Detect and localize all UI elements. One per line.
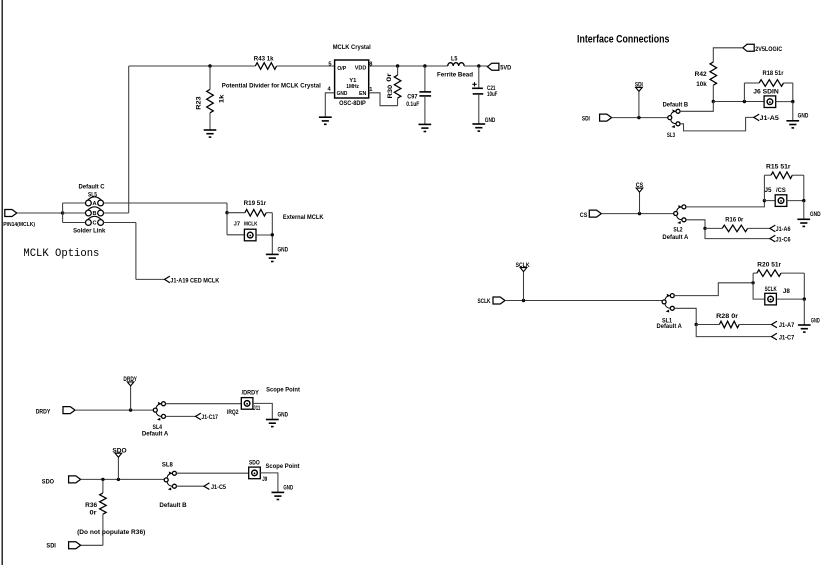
wire SL5 left bracket [63,203,86,223]
svg-text:VDD: VDD [355,66,367,72]
junction at R19 left [225,211,228,214]
junction right of J7 [271,233,274,236]
wire SL5 row A to R19 [104,203,228,213]
ground under C21 [472,117,495,131]
svg-text:J1-C5: J1-C5 [211,484,226,491]
svg-text:Potential Divider for MCLK Cry: Potential Divider for MCLK Crystal [222,83,321,90]
wire R42 junction to J6 [713,101,764,103]
inductor L5 Ferrite Bead [437,55,473,78]
wire oscillator pin 1 to R30 bottom [369,93,398,106]
svg-text:Default B: Default B [159,502,187,509]
oscillator U Y1 OSC-8DIP box [335,60,369,98]
svg-text:Default A: Default A [657,323,683,330]
net label SDI flag [635,82,643,118]
svg-text:Ferrite Bead: Ferrite Bead [437,72,473,79]
svg-text:SL5: SL5 [88,192,97,199]
wire junction down to J8 [753,283,765,299]
junction at C97 top [423,64,426,67]
ground under R23 [204,130,217,137]
svg-text:C97: C97 [407,93,418,100]
svg-text:C: C [92,221,96,227]
off-page arrow J1-A6 [770,225,791,233]
scope point J9 SDO [249,460,268,484]
off-page arrow J1-C7 [772,333,795,341]
svg-text:R42: R42 [695,71,708,78]
scope point J6 SDIN [753,89,779,108]
junction at SCLK net label stub [522,299,525,302]
svg-text:DRDY: DRDY [123,376,137,383]
svg-text:SCLK: SCLK [478,298,491,305]
svg-text:0.1uF: 0.1uF [406,101,419,108]
junction at R18 left [743,100,746,103]
wire R43 to oscillator pin 5 [277,65,335,67]
wire SCLK to SL1 [505,300,662,302]
svg-text:J8: J8 [783,288,791,295]
junction right of J8 [803,297,806,300]
svg-text:OSC-8DIP: OSC-8DIP [339,100,366,107]
net label DRDY flag [123,376,137,410]
scope point J7 MCLK [234,221,259,240]
solder link SL3 [668,109,680,128]
wire 2V5LOGIC to R42 [713,48,743,62]
svg-text:Solder Link: Solder Link [73,227,106,234]
svg-text:SDO: SDO [42,478,54,485]
svg-text:GND: GND [278,246,289,253]
svg-text:R16 0r: R16 0r [725,217,744,224]
svg-text:GND: GND [283,485,293,492]
svg-text:10uF: 10uF [487,91,498,98]
svg-text:Interface Connections: Interface Connections [577,34,669,46]
svg-text:R30: R30 [387,84,394,98]
wire SL2 top contact to J5 node [686,201,765,207]
ground at J9 [272,485,294,500]
solder link SL4 [153,402,165,421]
resistor R16 0r [705,217,770,232]
wire J8 to ground node [777,298,805,300]
svg-text:SDO: SDO [112,447,126,454]
resistor R18 51r [744,70,792,102]
svg-text:8: 8 [369,62,372,68]
off-page arrow J1-A5 [754,114,780,122]
svg-text:J11: J11 [253,405,260,412]
solder link SL5 row A [86,197,104,207]
svg-text:R20 51r: R20 51r [757,262,781,269]
solder link SL5 row C [86,216,104,226]
svg-text:1k: 1k [218,94,225,103]
svg-text:SDO: SDO [249,460,260,467]
svg-text:R18 51r: R18 51r [763,70,784,77]
svg-text:J1-A7: J1-A7 [779,322,795,329]
junction at R42 bottom [712,100,715,103]
svg-text:GND: GND [798,113,809,120]
svg-text:SDI: SDI [635,82,643,89]
svg-text:J9: J9 [262,476,267,483]
net label SDO flag [112,447,126,479]
svg-text:2V5LOGIC: 2V5LOGIC [755,46,782,53]
resistor R36 0r do-not-populate [81,479,107,545]
svg-text:J1-C17: J1-C17 [201,414,218,421]
input terminal DRDY [36,407,75,416]
wire SDI to SL3 [612,117,668,119]
wire CS to SL2 [601,213,673,215]
svg-text:SDI: SDI [582,116,590,123]
svg-text:GND: GND [278,412,289,419]
wire MCLK net vertical from crystal row down to SL5 row B [128,66,130,213]
off-page arrow J1-C17 [196,413,219,421]
input terminal SCLK [478,297,506,305]
solder link SL8 [164,471,176,490]
svg-text:Default A: Default A [142,430,169,437]
svg-text:R36: R36 [85,502,98,509]
svg-text:IRQ2: IRQ2 [227,409,239,416]
junction at R30 top [396,64,399,67]
wire SL1 bottom contact to R28 [674,308,696,324]
wire SL5 row C to J1-A19 [104,223,165,280]
junction at CS net label stub [638,212,641,215]
off-page arrow J1-A7 [772,321,795,329]
svg-text:SL8: SL8 [162,462,173,469]
scope point J5 /CS [765,187,787,207]
svg-text:MCLK Options: MCLK Options [23,248,99,260]
svg-text:Scope Point: Scope Point [266,463,301,470]
svg-text:CS: CS [580,212,588,219]
svg-text:SL3: SL3 [667,132,676,139]
wire SL1 top contact to R20 junction [674,283,753,296]
solder link SL2 [674,205,686,224]
wire to J1-C7 [696,325,771,337]
svg-text:J1-A6: J1-A6 [776,226,791,233]
svg-text:SCLK: SCLK [765,286,777,293]
wire oscillator pin 4 to ground [325,93,334,117]
svg-text:0r: 0r [90,510,98,517]
svg-text:J1-A19 CED MCLK: J1-A19 CED MCLK [170,278,219,285]
wire SL5 row B to crystal net [104,212,129,214]
wire PIN14 to SL5 [18,212,63,214]
ground at J8 [798,299,820,332]
svg-text:GND: GND [811,317,820,324]
svg-text:SCLK: SCLK [516,262,530,269]
junction at SL5 common [61,211,64,214]
wire J11 to ground [253,403,272,419]
wire L5 to 5VD terminal [464,65,487,67]
svg-text:O/P: O/P [337,66,346,72]
wire junction to J5 [764,200,775,202]
resistor R19 51r [227,200,272,216]
junction at R36 top [101,478,104,481]
svg-text:5: 5 [328,61,331,67]
svg-text:L5: L5 [451,55,458,62]
svg-text:1: 1 [369,87,372,93]
off-page arrow J1-C6 [770,235,791,243]
svg-text:CS: CS [636,182,644,189]
wire SDO to SL8 [81,478,165,480]
svg-text:Default A: Default A [662,234,688,241]
svg-text:Default C: Default C [79,184,106,191]
resistor R23 1k [196,66,226,130]
wire top horizontal to R43 [129,65,256,67]
wire J7 to ground node [256,213,272,255]
ground at oscillator pin 4 [319,117,332,124]
svg-text:GND: GND [485,117,496,124]
ground at J7 [266,246,288,261]
resistor R30 0r [386,66,401,106]
scope point J8 SCLK [765,286,791,305]
resistor R28 0r [696,313,771,328]
svg-text:GND: GND [337,91,348,97]
wire DRDY to SL4 [75,409,153,411]
input terminal SDI bottom [46,542,80,550]
junction at R23 top [208,64,211,67]
wire J6 to ground node [776,101,793,103]
solder link SL1 [662,294,674,313]
capacitor C21 10uF polarized [472,66,497,124]
wire SL3 top contact to R42 junction [680,102,713,112]
junction at J5 left [763,199,766,202]
wire oscillator pin 8 output [369,65,448,67]
net label SCLK flag [516,262,530,300]
net label CS flag [636,182,644,213]
svg-text:GND: GND [810,211,821,218]
svg-text:/DRDY: /DRDY [242,390,260,397]
junction at DRDY net label stub [129,408,132,411]
resistor R20 51r [753,262,804,300]
wire SL4 bottom contact to J1-C17 [166,415,196,417]
svg-text:R19 51r: R19 51r [244,200,267,207]
junction right of J6 [791,100,794,103]
solder link SL5 row B [86,207,104,217]
ground at J6 [786,102,808,128]
svg-text:J5: J5 [765,187,773,194]
svg-text:Scope Point: Scope Point [266,387,301,394]
resistor R43 1k [254,55,277,69]
wire J9 to ground [260,473,278,493]
wire SL2 bottom contact to R16 [686,220,705,229]
svg-text:PIN14(MCLK): PIN14(MCLK) [3,222,35,228]
svg-text:0r: 0r [386,72,393,82]
input terminal SDI [582,114,612,122]
junction at R16 left [703,227,706,230]
junction right of J5 [802,199,805,202]
wire R19 left down to J7 [227,213,245,235]
wire J5 to ground node [787,200,804,202]
page border left edge [1,0,3,565]
wire SL4 top contact to J11 [166,403,242,405]
svg-text:5VD: 5VD [500,65,511,72]
svg-text:J6 SDIN: J6 SDIN [753,89,779,96]
svg-text:MCLK: MCLK [244,221,258,227]
input terminal SDO [42,476,81,485]
capacitor C97 0.1uF [406,66,431,124]
junction at R20 left [751,281,754,284]
wire to J1-C6 [705,228,770,238]
input terminal PIN14(MCLK) [3,210,35,229]
wire SL8 bottom contact to J1-C5 [176,485,204,487]
svg-text:1MHz: 1MHz [346,84,359,90]
svg-text:DRDY: DRDY [36,408,51,415]
svg-text:J7: J7 [234,221,240,227]
resistor R15 51r [764,163,803,200]
junction at C21 top [477,64,480,67]
svg-text:EN: EN [359,91,366,97]
resistor R42 10k [695,62,717,102]
wire SL3 bottom contact to J1-A5 [680,117,754,130]
svg-text:R23: R23 [196,96,203,110]
power terminal 5VD [488,63,512,71]
ground at J5 [797,201,821,227]
svg-text:J1-C7: J1-C7 [779,334,795,341]
svg-text:SDI: SDI [46,542,56,549]
power terminal 2V5LOGIC [743,44,783,53]
off-page arrow J1-C5 [204,483,226,491]
junction at R28 left [695,323,698,326]
ground under C97 [419,124,432,131]
ground at J11 [266,412,288,427]
svg-text:J1-C6: J1-C6 [776,236,791,243]
svg-text:R43 1k: R43 1k [254,55,274,62]
scope point J11 /DRDY [227,390,261,416]
off-page arrow J1-A19 CED MCLK [165,276,220,285]
svg-text:MCLK Crystal: MCLK Crystal [333,44,371,51]
input terminal CS [580,210,602,219]
svg-text:R15 51r: R15 51r [766,163,791,170]
junction at SDI net label stub [637,116,640,119]
svg-text:(Do not populate R36): (Do not populate R36) [77,529,145,536]
svg-text:Default B: Default B [663,102,689,109]
svg-text:External MCLK: External MCLK [283,214,324,221]
svg-text:SL2: SL2 [673,227,683,234]
wire SL8 top contact to J9 [176,472,249,474]
svg-text:R28 0r: R28 0r [716,313,739,320]
junction at SDO net label stub [117,478,120,481]
svg-text:10k: 10k [696,81,707,88]
svg-text:J1-A5: J1-A5 [760,115,780,122]
svg-text:/CS: /CS [776,187,786,194]
